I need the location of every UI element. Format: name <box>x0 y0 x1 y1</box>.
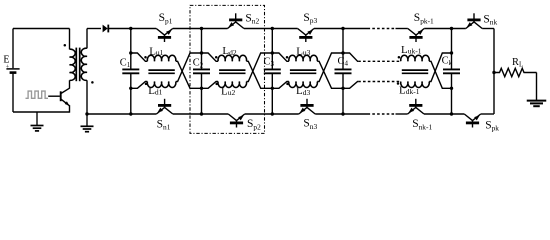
wire right rail <box>493 29 495 115</box>
capacitor C2 <box>193 69 210 73</box>
wire cell2 upper-left link <box>202 53 219 61</box>
capacitor C4 <box>335 69 352 73</box>
label Sn1 <box>157 118 171 131</box>
wire cell1 upper-right cross link <box>176 61 202 88</box>
label Ld3 <box>296 85 310 97</box>
wire rail 4 upper <box>342 29 344 70</box>
node rail 3 bottom <box>271 112 274 115</box>
wire rail 4 lower <box>342 73 344 114</box>
node rail 4 bottom <box>341 112 344 115</box>
wire bottom bus dashed ellipsis <box>368 113 396 115</box>
node rail 3 top <box>271 27 274 30</box>
switch Sp1 <box>156 29 172 43</box>
wire rail 3 upper <box>271 29 273 70</box>
node rail 5 top <box>450 27 453 30</box>
wire rail 1 upper <box>130 29 132 70</box>
capacitor C1 <box>122 69 139 73</box>
wire cell3 lower-right cross link <box>317 53 343 82</box>
transistor Q1 <box>61 88 70 106</box>
wire base lead <box>48 95 60 97</box>
wire emitter to bottom <box>69 105 71 112</box>
label Sp3 <box>303 12 317 25</box>
label battery plus <box>6 64 10 71</box>
inductor d2 winding <box>218 55 247 61</box>
switch Sp3 <box>298 29 314 43</box>
label Sp1 <box>159 12 173 25</box>
wire cell1 lower-right cross link <box>176 53 202 82</box>
inductor u3 winding <box>289 55 318 61</box>
wire top bus <box>131 28 494 30</box>
node rail 1 bottom <box>129 112 132 115</box>
node rail 2 top <box>200 27 203 30</box>
square-wave gate source <box>26 91 49 98</box>
wire rail 2 lower <box>201 73 203 114</box>
svg-text:Snk-1: Snk-1 <box>412 118 432 131</box>
core cell3 <box>290 70 316 73</box>
diode D1 <box>103 25 109 33</box>
inductor u2 winding <box>218 82 247 88</box>
wire top bus dashed ellipsis <box>368 28 396 30</box>
wire dotted ellipsis upper <box>358 60 401 62</box>
node rail 2 tap lower <box>200 87 203 90</box>
label Ck <box>442 55 453 67</box>
dot d3 polarity <box>286 83 289 86</box>
node rail 2 bottom <box>200 112 203 115</box>
label RL <box>512 57 523 69</box>
transformer secondary winding <box>81 29 87 115</box>
svg-text:Spk-1: Spk-1 <box>414 12 434 25</box>
label Spk-1 <box>414 12 434 25</box>
svg-text:Sp2: Sp2 <box>247 118 261 131</box>
wire rail 1 lower <box>130 73 132 114</box>
dot d2 polarity <box>215 56 218 59</box>
dot u1 polarity <box>144 56 147 59</box>
wire rail 3 lower <box>271 73 273 114</box>
svg-text:Lu2: Lu2 <box>221 86 235 98</box>
wire cell3 upper-right cross link <box>317 61 343 88</box>
label Snk-1 <box>412 118 432 131</box>
switch Snk-1 <box>408 99 424 114</box>
wire cell2 lower-right cross link <box>247 53 273 82</box>
node rail 5 tap upper <box>450 51 453 54</box>
label Luk-1 <box>401 44 422 56</box>
svg-text:Ld3: Ld3 <box>296 85 310 97</box>
svg-text:Ldk-1: Ldk-1 <box>399 84 420 96</box>
wire cell3 lower-left link <box>272 82 289 89</box>
wire last-cell lower-right cross link <box>429 53 451 82</box>
label Sn2 <box>245 12 259 25</box>
label Sp2 <box>247 118 261 131</box>
node rail 5 bottom <box>450 112 453 115</box>
inductor u1 winding <box>147 55 176 61</box>
label Ld1 <box>148 85 162 97</box>
wire left loop top <box>13 28 70 30</box>
svg-text:Lu1: Lu1 <box>149 45 163 57</box>
switch Spk-1 <box>408 29 424 43</box>
label Spk <box>485 119 499 132</box>
capacitor C3 <box>264 69 281 73</box>
wire secondary to diode <box>87 28 101 30</box>
wire cell1 lower-left link <box>131 82 148 89</box>
wire left vertical lower <box>12 74 14 112</box>
wire rail 5 lower <box>451 73 453 114</box>
switch Sp2 <box>228 114 244 128</box>
ground <box>527 101 547 107</box>
transformer core <box>76 48 79 82</box>
label C2 <box>193 58 204 70</box>
node rail 4 top <box>341 27 344 30</box>
inductor d1 winding <box>147 82 176 88</box>
wire last-cell upper-left link <box>343 53 358 61</box>
wire collector <box>69 80 71 88</box>
label C3 <box>264 56 275 68</box>
svg-text:C1: C1 <box>120 57 131 69</box>
svg-text:Sp3: Sp3 <box>303 12 317 25</box>
core cell1 <box>148 70 174 73</box>
node rail 5 tap lower <box>450 87 453 90</box>
dot secondary polarity <box>91 81 94 84</box>
node rail 1 tap lower <box>129 87 132 90</box>
dot Ldk-1 polarity <box>397 82 400 85</box>
transformer primary winding <box>70 29 76 81</box>
svg-text:Sn3: Sn3 <box>303 118 317 131</box>
label E <box>3 55 9 66</box>
wire left vertical upper <box>12 29 14 69</box>
svg-text:Luk-1: Luk-1 <box>401 44 422 56</box>
node rail 3 tap lower <box>271 87 274 90</box>
wire last-cell upper-right cross link <box>429 61 451 88</box>
wire cell2 lower-left link <box>202 82 219 89</box>
svg-text:RL: RL <box>512 57 523 69</box>
battery E <box>6 69 19 73</box>
svg-text:Sn1: Sn1 <box>157 118 171 131</box>
wire rail 5 upper <box>451 29 453 70</box>
switch Spk <box>464 114 480 128</box>
wire rail 2 upper <box>201 29 203 70</box>
label Lu2 <box>221 86 235 98</box>
dot u3 polarity <box>286 56 289 59</box>
label Ldk-1 <box>399 84 420 96</box>
node rail 2 tap upper <box>200 51 203 54</box>
dot primary polarity <box>64 44 67 47</box>
wire left loop bottom <box>13 111 70 113</box>
label C1 <box>120 57 131 69</box>
switch Sn1 <box>156 99 172 114</box>
inductor Ldk-1 winding <box>401 82 430 88</box>
wire bottom bus <box>87 113 494 115</box>
svg-text:C4: C4 <box>338 56 349 68</box>
ground <box>31 112 44 131</box>
wire cell1 upper-left link <box>131 53 148 61</box>
dot u2 polarity <box>215 83 218 86</box>
label Sn3 <box>303 118 317 131</box>
label Lu1 <box>149 45 163 57</box>
label Lu3 <box>296 46 310 58</box>
node rail 1 tap upper <box>129 51 132 54</box>
capacitor Ck <box>443 69 460 73</box>
label Ld2 <box>222 45 236 57</box>
wire dotted ellipsis lower <box>358 81 401 83</box>
node rail 1 top <box>129 27 132 30</box>
switch Snk <box>466 13 482 28</box>
wire cell2 upper-right cross link <box>247 61 273 88</box>
core last cell <box>402 70 428 73</box>
svg-text:+: + <box>6 64 10 71</box>
ground <box>81 114 94 132</box>
label Snk <box>483 13 497 26</box>
unit cell dashed box <box>190 5 265 133</box>
node rail 3 tap upper <box>271 51 274 54</box>
svg-text:Sp1: Sp1 <box>159 12 173 25</box>
dot Luk-1 polarity <box>398 56 401 59</box>
switch Sn3 <box>299 99 315 114</box>
node secondary-ground junction <box>85 112 88 115</box>
switch Sn2 <box>228 13 244 28</box>
svg-text:Ld2: Ld2 <box>222 45 236 57</box>
wire diode to C1 <box>108 28 131 30</box>
dot d1 polarity <box>145 83 148 86</box>
resistor RL <box>494 68 537 76</box>
svg-text:Spk: Spk <box>485 119 499 132</box>
node load junction <box>492 71 495 74</box>
wire load down <box>536 73 538 101</box>
node rail 4 tap lower <box>341 87 344 90</box>
label C4 <box>338 56 349 68</box>
node rail 4 tap upper <box>341 51 344 54</box>
wire cell3 upper-left link <box>272 53 289 61</box>
svg-text:Sn2: Sn2 <box>245 12 259 25</box>
wire last-cell lower-left link <box>343 82 358 89</box>
svg-text:Lu3: Lu3 <box>296 46 310 58</box>
svg-text:Snk: Snk <box>483 13 497 26</box>
inductor Luk-1 winding <box>401 55 430 61</box>
svg-text:Ld1: Ld1 <box>148 85 162 97</box>
core cell2 <box>219 70 245 73</box>
inductor d3 winding <box>289 82 318 88</box>
